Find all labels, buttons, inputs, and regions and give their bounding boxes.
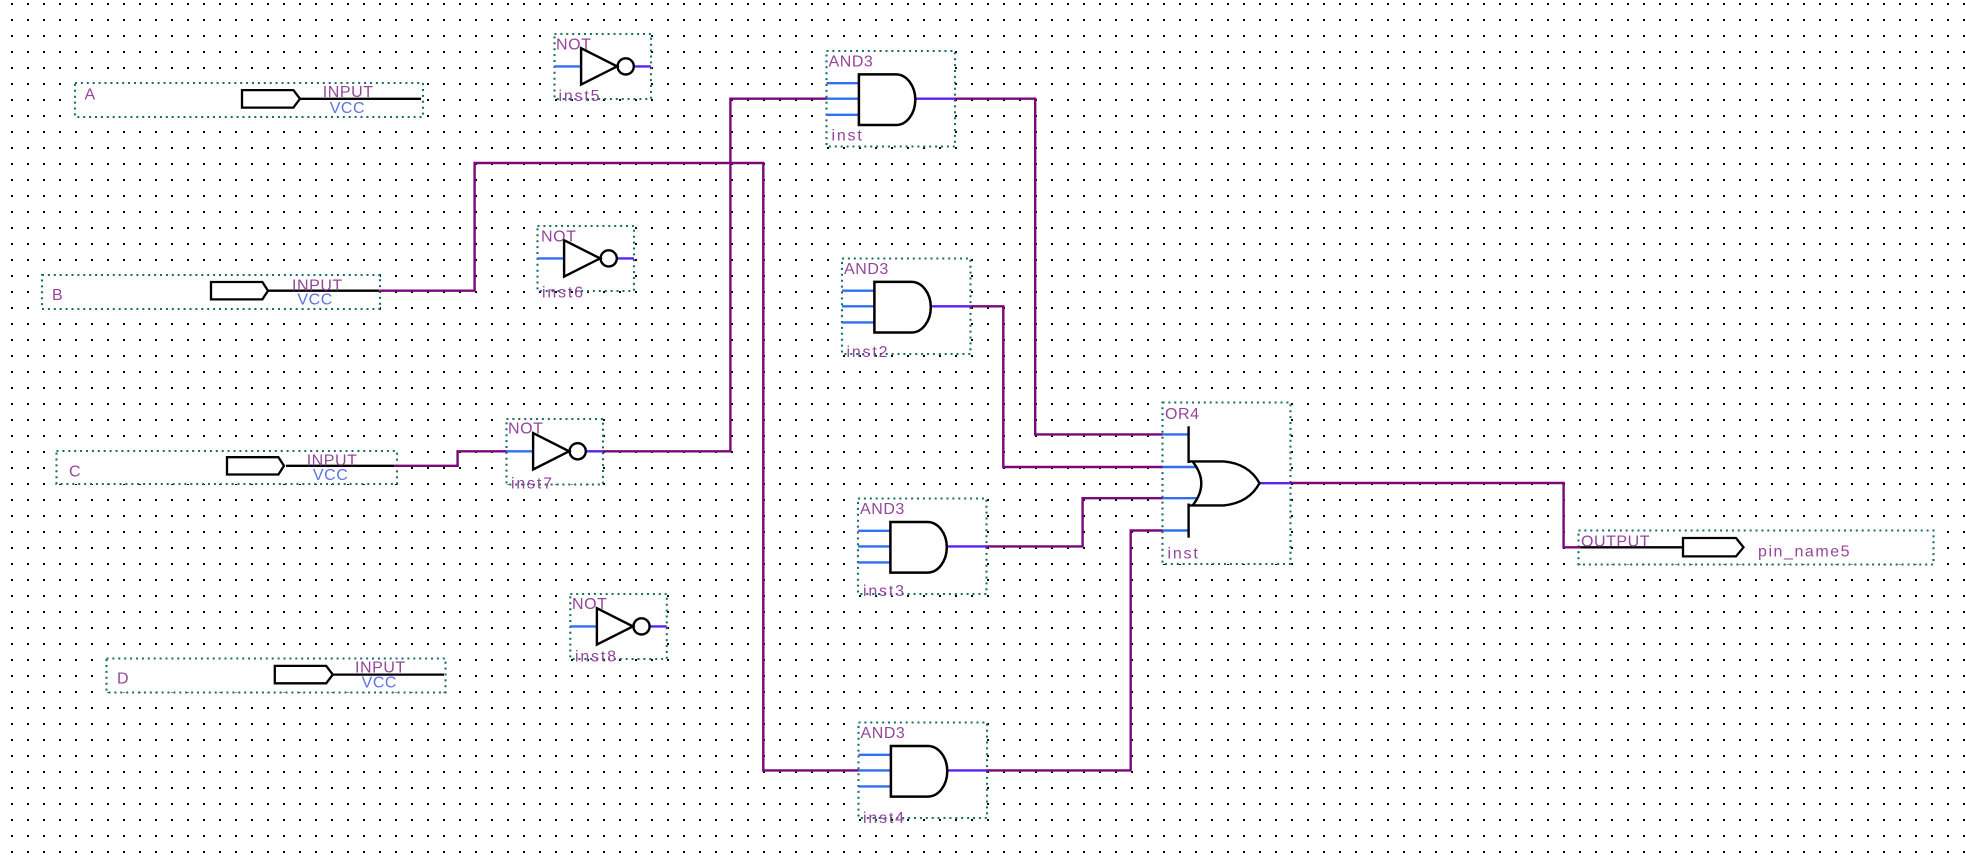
svg-text:inst: inst [832, 128, 864, 145]
AND3 inst labels [829, 54, 874, 145]
svg-text:inst6: inst6 [542, 285, 585, 302]
input pin C symbol [227, 457, 394, 474]
pin C labels [69, 452, 357, 484]
NOT inst7 output stub [585, 450, 603, 452]
input pin A symbol [242, 90, 421, 108]
svg-text:inst: inst [1168, 546, 1200, 563]
input pin B selection box [42, 275, 380, 309]
wire net C: pin C to NOT inst7 input [394, 451, 507, 466]
pin B labels [52, 277, 343, 308]
OR4 inst labels [1165, 406, 1200, 563]
wire net B: pin B to AND3 inst4 input 2 [380, 163, 859, 770]
svg-text:INPUT: INPUT [323, 84, 374, 101]
AND3 inst2 labels [844, 261, 889, 361]
svg-text:VCC: VCC [362, 675, 397, 692]
input pin D symbol [275, 666, 444, 683]
input pin B symbol [211, 282, 380, 299]
pin A labels [85, 84, 374, 117]
pin D labels [117, 660, 406, 692]
svg-text:pin_name5: pin_name5 [1758, 544, 1851, 561]
AND3 inst2 output stub [931, 305, 971, 307]
OR4 inst selection box [1163, 403, 1291, 565]
OR4 inst output stub [1259, 482, 1291, 484]
OR4 inst body [1189, 426, 1260, 537]
wire: AND3 inst output to OR4 input 1 [955, 99, 1163, 435]
AND3 inst body [859, 74, 915, 125]
AND3 inst2 body [874, 282, 930, 333]
svg-text:AND3: AND3 [829, 54, 874, 71]
NOT inst8 output stub [649, 625, 667, 627]
wire: NOT inst7 output to AND3 inst input 2 [603, 99, 827, 452]
svg-text:inst2: inst2 [847, 344, 890, 361]
svg-text:inst4: inst4 [863, 810, 906, 827]
svg-text:NOT: NOT [572, 596, 607, 613]
svg-text:inst8: inst8 [575, 649, 618, 666]
svg-text:inst3: inst3 [863, 583, 906, 600]
input pin D selection box [107, 659, 446, 693]
wire: AND3 inst3 output to OR4 input 3 [987, 498, 1163, 546]
NOT inst6 output stub [616, 257, 634, 259]
wire: OR4 output to OUTPUT pin [1291, 483, 1581, 547]
NOT inst8 body [597, 608, 650, 644]
NOT inst7 body [533, 433, 586, 469]
svg-text:OR4: OR4 [1165, 406, 1200, 423]
NOT inst8 selection box [570, 594, 667, 659]
svg-text:inst5: inst5 [559, 88, 602, 105]
NOT inst7 labels [508, 421, 554, 493]
wire: AND3 inst2 output to OR4 input 2 [971, 306, 1163, 467]
svg-text:OUTPUT: OUTPUT [1581, 534, 1650, 551]
NOT inst8 input stub [570, 625, 597, 627]
NOT inst6 labels [541, 229, 585, 302]
AND3 inst3 output stub [947, 545, 987, 547]
NOT inst8 labels [572, 596, 618, 666]
svg-text:B: B [52, 287, 63, 304]
NOT inst6 body [564, 240, 617, 276]
input pin A selection box [75, 83, 423, 117]
output pin pin_name5 symbol [1581, 538, 1744, 556]
AND3 inst3 labels [860, 501, 906, 600]
AND3 inst2 input stubs [842, 290, 874, 292]
AND3 inst3 selection box [858, 499, 987, 595]
AND3 inst4 input stubs [859, 754, 891, 756]
AND3 inst2 selection box [842, 259, 971, 355]
NOT inst6 input stub [538, 257, 565, 259]
svg-text:AND3: AND3 [844, 261, 889, 278]
svg-text:NOT: NOT [508, 421, 543, 438]
AND3 inst selection box [827, 51, 956, 147]
AND3 inst input stubs [827, 82, 859, 84]
AND3 inst4 body [891, 746, 947, 797]
svg-text:NOT: NOT [541, 229, 576, 246]
NOT inst7 input stub [507, 450, 534, 452]
NOT inst5 selection box [555, 34, 652, 99]
AND3 inst3 input stubs [858, 530, 890, 532]
NOT inst5 labels [556, 37, 601, 106]
NOT inst5 body [581, 48, 634, 84]
svg-text:VCC: VCC [297, 292, 332, 309]
wire: AND3 inst4 output to OR4 input 4 [986, 531, 1162, 771]
NOT inst5 input stub [555, 65, 582, 67]
svg-text:AND3: AND3 [860, 501, 905, 518]
AND3 inst4 labels [861, 725, 906, 827]
OUTPUT pin_name5 selection box [1579, 531, 1934, 565]
NOT inst5 output stub [633, 65, 651, 67]
svg-text:AND3: AND3 [861, 725, 906, 742]
svg-text:D: D [117, 671, 129, 688]
input pin C selection box [57, 451, 398, 484]
AND3 inst4 output stub [947, 769, 987, 771]
AND3 inst output stub [915, 97, 955, 99]
svg-text:VCC: VCC [330, 100, 365, 117]
svg-text:C: C [69, 464, 81, 481]
NOT inst6 selection box [538, 226, 635, 291]
svg-text:NOT: NOT [556, 37, 591, 54]
AND3 inst3 body [890, 522, 946, 573]
NOT inst7 selection box [507, 419, 604, 485]
svg-text:A: A [85, 86, 96, 103]
svg-text:inst7: inst7 [511, 476, 554, 493]
svg-text:VCC: VCC [313, 467, 348, 484]
AND3 inst4 selection box [859, 723, 988, 819]
OUTPUT pin labels [1581, 534, 1851, 561]
OR4 inst input stubs [1163, 433, 1190, 435]
